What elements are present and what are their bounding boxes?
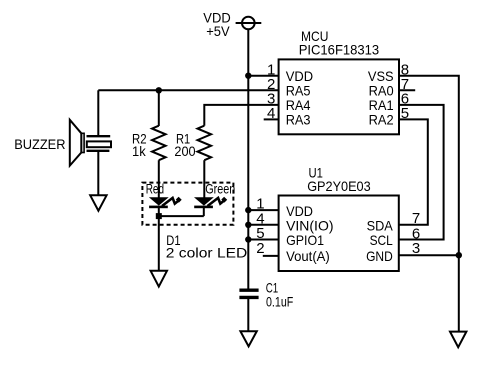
- label D1 2 color LED: [166, 232, 248, 260]
- wire U1 pin2 stub: [263, 255, 279, 257]
- junction LED cathodes: [156, 213, 162, 219]
- MCU pin numbers left: [267, 61, 275, 122]
- LED D1 dashed enclosure: [142, 183, 233, 225]
- U1 pin labels left: [286, 203, 333, 264]
- wire VSS to ground rail: [399, 76, 459, 332]
- svg-text:RA3: RA3: [286, 112, 311, 128]
- U1 pin numbers left: [256, 196, 264, 257]
- wire RA1 to SCL: [399, 105, 444, 240]
- resistor R1: [198, 126, 212, 161]
- wire U1 pin1: [248, 209, 278, 211]
- wire RA2 to SDA: [399, 119, 428, 224]
- svg-text:GP2Y0E03: GP2Y0E03: [307, 178, 371, 194]
- wire U1 pin5: [248, 239, 278, 241]
- svg-text:2: 2: [256, 240, 264, 257]
- svg-text:VDD: VDD: [286, 68, 313, 84]
- wire cathode common horizontal: [159, 215, 204, 217]
- wire MCU pin1 VDD: [248, 75, 278, 77]
- MCU IC box: [279, 59, 399, 134]
- svg-text:Vout(A): Vout(A): [286, 248, 330, 264]
- wire R2 bottom to red LED: [158, 160, 160, 198]
- MCU pin labels right: [368, 68, 394, 128]
- wire R2 top: [158, 90, 160, 126]
- ground buzzer: [90, 195, 106, 210]
- junction RA5 / R2: [156, 87, 162, 93]
- U1 pin numbers right: [412, 210, 420, 257]
- power symbol VDD +5V: [236, 17, 262, 30]
- svg-text:RA5: RA5: [286, 83, 311, 99]
- wire buzzer bottom: [97, 151, 99, 196]
- svg-text:Red: Red: [146, 181, 164, 197]
- label VDD +5V: [203, 10, 230, 40]
- wire U1 GND to ground rail: [399, 254, 459, 256]
- svg-text:VSS: VSS: [368, 68, 394, 84]
- ground LED: [151, 271, 167, 287]
- svg-text:BUZZER: BUZZER: [14, 136, 65, 152]
- svg-text:VDD: VDD: [286, 203, 313, 219]
- svg-text:+5V: +5V: [206, 23, 230, 39]
- svg-text:RA0: RA0: [369, 83, 394, 99]
- svg-text:2 color LED: 2 color LED: [166, 244, 248, 260]
- resistor R2: [152, 126, 166, 161]
- svg-text:SDA: SDA: [367, 217, 394, 233]
- wire VDD vertical rail: [247, 29, 249, 288]
- MCU pin labels left: [286, 68, 313, 128]
- wire RA4 net (MCU pin3 to R1): [204, 105, 278, 126]
- wire U1 pin4: [248, 224, 278, 226]
- wire RA5 net (MCU pin2 to buzzer): [98, 89, 278, 91]
- svg-text:PIC16F18313: PIC16F18313: [299, 42, 380, 58]
- svg-text:GPIO1: GPIO1: [286, 232, 324, 248]
- svg-text:Green: Green: [205, 181, 235, 197]
- wire R1 bottom to green LED: [203, 160, 205, 198]
- ground C1: [240, 331, 256, 346]
- wire RA0 stub: [399, 89, 415, 91]
- label R2 1k: [132, 130, 147, 159]
- label R1 200: [174, 130, 195, 159]
- capacitor C1: [239, 290, 258, 297]
- svg-text:VIN(IO): VIN(IO): [286, 217, 333, 233]
- label C1 0.1uF: [266, 280, 294, 310]
- U1 pin labels right: [366, 217, 393, 264]
- junction U1 pin5: [245, 236, 251, 242]
- buzzer BZ1: [70, 120, 111, 166]
- label MCU PIC16F18313: [299, 28, 380, 58]
- wire red LED cathode down: [158, 208, 160, 271]
- svg-text:SCL: SCL: [370, 232, 393, 248]
- junction U1 pin4: [245, 222, 251, 228]
- sensor U1 box: [279, 196, 399, 272]
- MCU pin numbers right: [401, 61, 409, 122]
- junction VDD / MCU pin1: [245, 73, 251, 79]
- svg-text:4: 4: [267, 105, 275, 122]
- svg-text:GND: GND: [366, 248, 393, 264]
- wire green LED cathode down: [203, 208, 205, 216]
- svg-text:1k: 1k: [132, 143, 147, 159]
- wire buzzer top: [97, 90, 99, 136]
- svg-text:0.1uF: 0.1uF: [266, 293, 293, 309]
- LED D1 green element: [194, 197, 227, 209]
- wire MCU pin4 stub: [264, 118, 279, 120]
- LED D1 red element: [149, 197, 182, 209]
- wire C1 bottom: [247, 297, 249, 331]
- junction ground rail: [456, 252, 462, 258]
- ground right rail: [450, 332, 466, 348]
- svg-text:200: 200: [174, 143, 195, 159]
- junction U1 pin1: [245, 207, 251, 213]
- svg-text:RA2: RA2: [369, 112, 394, 128]
- label U1 GP2Y0E03: [307, 164, 371, 193]
